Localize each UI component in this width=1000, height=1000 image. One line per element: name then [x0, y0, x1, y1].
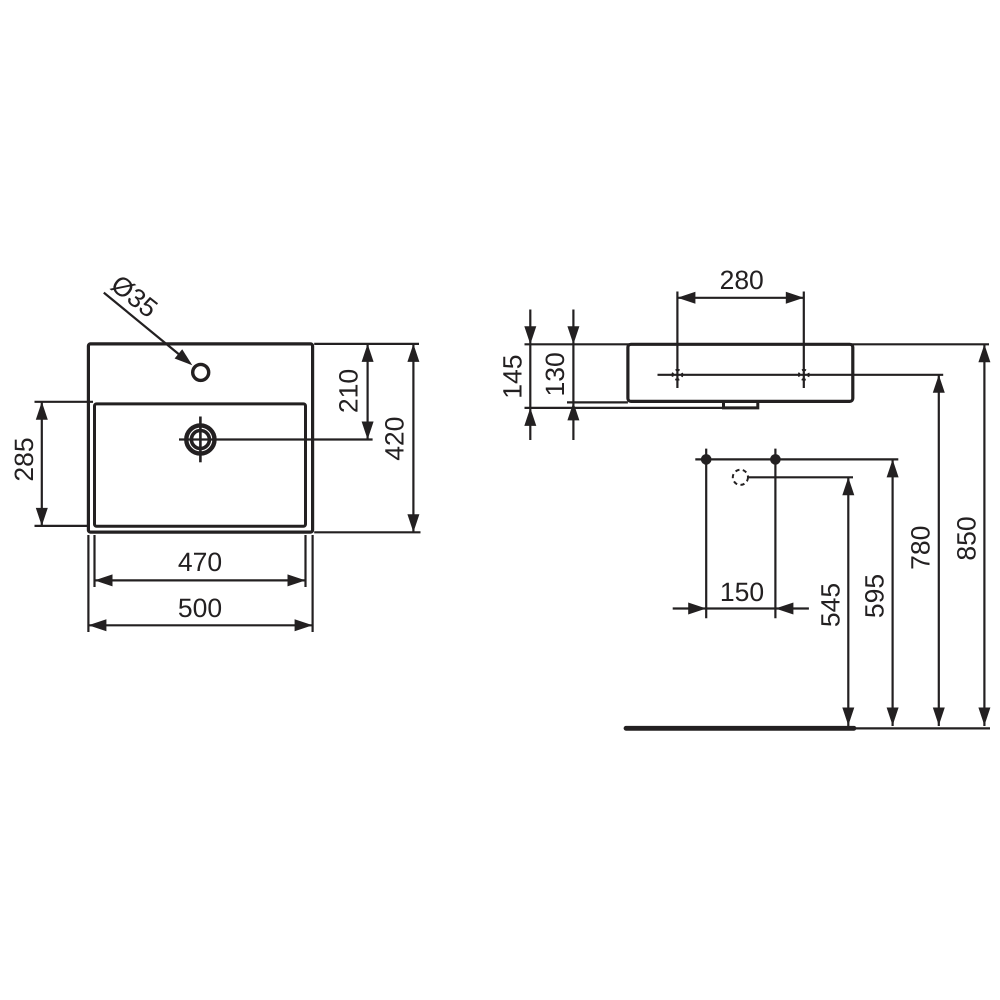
svg-text:545: 545: [815, 583, 845, 627]
svg-text:210: 210: [334, 369, 364, 413]
svg-text:285: 285: [9, 437, 39, 481]
svg-text:595: 595: [860, 574, 890, 618]
svg-text:500: 500: [178, 593, 222, 623]
svg-text:280: 280: [720, 265, 764, 295]
svg-text:420: 420: [380, 417, 410, 461]
svg-text:470: 470: [178, 547, 222, 577]
svg-text:150: 150: [720, 577, 764, 607]
svg-text:780: 780: [906, 526, 936, 570]
svg-text:850: 850: [952, 516, 982, 560]
svg-text:130: 130: [540, 352, 570, 396]
svg-text:145: 145: [497, 354, 527, 398]
